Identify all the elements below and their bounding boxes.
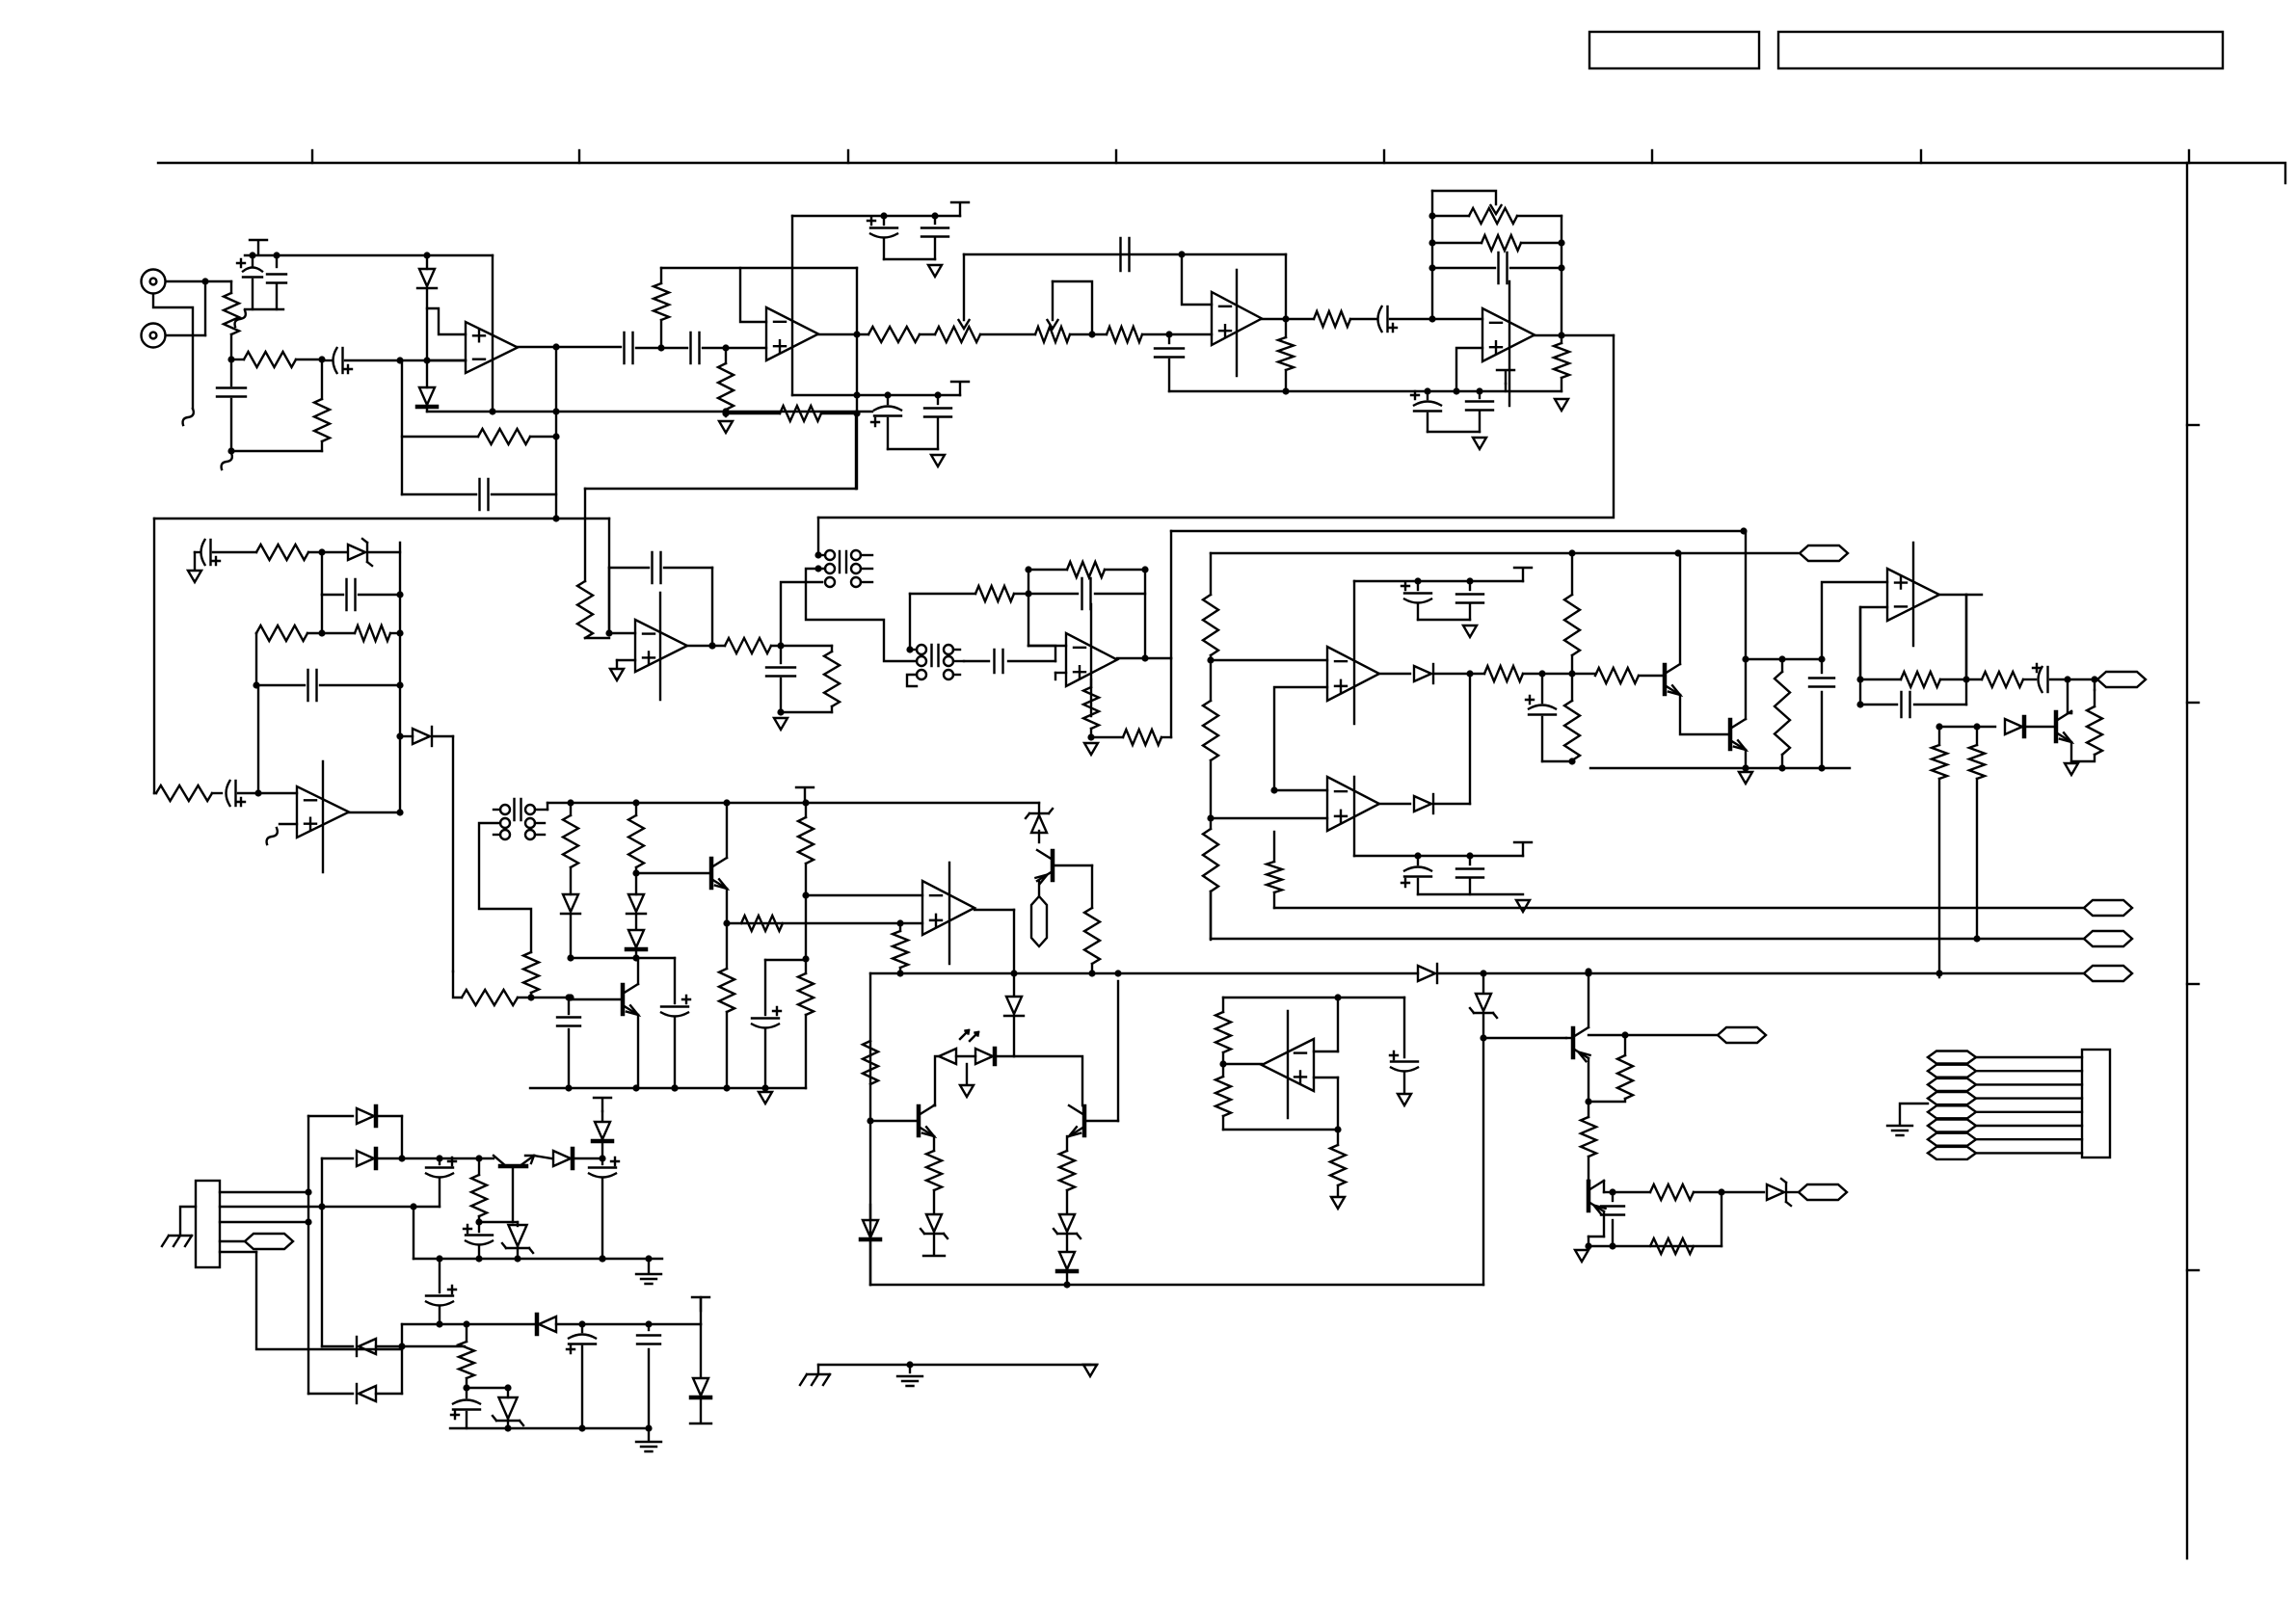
hexagon tag NET4 (2084, 931, 2132, 946)
resistor R56 (1337, 1130, 1339, 1145)
pol cap C39 (439, 1158, 441, 1164)
rail V+ stage1 (245, 254, 493, 256)
diode D9 (628, 894, 644, 912)
capacitor C2 polarized coupling (322, 359, 332, 361)
wire Q9 collector gnd (1603, 1211, 1605, 1237)
ground arrow G15 (1575, 1250, 1589, 1262)
op-amp U12 mirrored (1262, 1039, 1314, 1091)
wire S2 bottom route (907, 675, 917, 686)
capacitor C35 (568, 999, 570, 1014)
hexagon tag CN2 pin 3 (1928, 1078, 1976, 1091)
wire U2 output (818, 333, 868, 335)
pol cap C37 (764, 960, 766, 1015)
hexagon tag CN2 pin 2 (1928, 1065, 1976, 1078)
resistor chain x1256 a (1210, 553, 1212, 595)
wire feedback right vertical (856, 268, 858, 489)
wire U2 - loop top (661, 268, 766, 322)
CN2 ground lead (1900, 1104, 1928, 1124)
wire B2 left leg (1210, 891, 1212, 939)
resistor R44 (893, 931, 908, 968)
PSU minus gnd rail (450, 1427, 649, 1429)
capacitor C38 (1612, 1192, 1614, 1201)
pol cap C45 (1391, 1060, 1418, 1062)
PSU plus gnd rail (414, 1258, 662, 1260)
wire C25 to minus (1028, 646, 1055, 661)
resistor R23 U7 plus to gnd (1090, 679, 1092, 687)
top border ticks (311, 150, 313, 163)
resistor R54 (1215, 1012, 1231, 1052)
resistor R39 drop2 (635, 803, 637, 815)
bus wire B2 (1211, 938, 2084, 940)
hook stub U5 plus (280, 823, 297, 825)
wire D6 up to D5 node (1469, 674, 1471, 804)
diode D14 vertical (1013, 973, 1015, 995)
resistor R8 (868, 327, 920, 342)
op-amp U11 (1887, 569, 1939, 621)
wire plus rail (402, 1157, 494, 1159)
capacitor C13 on rail (1121, 238, 1130, 271)
hexagon tag NET1 (1800, 545, 1848, 561)
grounds tie wire (818, 1364, 1090, 1366)
op-amp U5 (297, 786, 349, 838)
resistor R49 (1581, 1117, 1596, 1157)
hexagon tag CN2 pin 8 (1928, 1147, 1976, 1159)
capacitor C15 polarized (1386, 306, 1388, 332)
wire J1 to node (166, 280, 231, 282)
trimmer VR2 (1035, 327, 1070, 342)
ground arrow G10 (1463, 625, 1477, 637)
op-amp U3 power line (1236, 270, 1238, 376)
wire U4 plus (1456, 348, 1482, 391)
capacitor C20 row2 (322, 594, 343, 596)
wire U8 out (974, 909, 1014, 911)
ground rail mid (1169, 390, 1562, 392)
transistor Q9 pnp (1587, 1182, 1591, 1211)
capacitor C10 (934, 216, 936, 224)
op-amp U4 power line (1508, 281, 1510, 406)
wire comparator feed line (1171, 530, 1744, 532)
op-amp U7 (1066, 633, 1117, 686)
wire cross link (571, 957, 636, 959)
transistor Q6 (917, 1106, 921, 1135)
wire Q8c chain (1588, 1102, 1589, 1117)
resistor R30 (1781, 659, 1783, 672)
diode D5 (1379, 673, 1410, 675)
resistor R53 (466, 1324, 467, 1342)
resistor R13 to gnd rail (1561, 335, 1562, 343)
zener D18 (1767, 1184, 1784, 1200)
hexagon tag NET8 vertical (1031, 896, 1047, 946)
supply tap T1 (250, 240, 267, 253)
resistor R36 (462, 990, 518, 1005)
op-amp U6 (635, 620, 687, 672)
wire rail corner down (1285, 254, 1287, 319)
diode D28 (700, 1324, 702, 1376)
diode D7 base (1977, 726, 1995, 728)
zener D12 (1482, 973, 1484, 993)
resistor R1 input shunt (230, 281, 232, 293)
capacitor C19 polarized (195, 551, 200, 553)
wire bottom row (1589, 1245, 1722, 1247)
wire Q6 emitter (933, 1136, 935, 1151)
resistor R20 (824, 652, 840, 706)
bridge inner rail (321, 1158, 323, 1346)
hexagon tag NET3 (2084, 900, 2132, 916)
wire Q8 emitter up (1588, 971, 1589, 1027)
capacitor C27 polarized (1417, 581, 1419, 590)
wire Q7 collector link (1014, 1056, 1082, 1105)
wire C37 top link (765, 959, 806, 961)
stub bar (923, 1255, 945, 1257)
op-amp U12 power line (1287, 1011, 1289, 1118)
pol cap C36 (636, 957, 675, 959)
zener D3 (348, 545, 365, 560)
resistor R47 (1059, 1151, 1075, 1190)
resistor R31 U11 feedback (1860, 678, 1901, 680)
diode D17 bar-top (1059, 1252, 1075, 1269)
switch S2 stubs (910, 649, 917, 651)
resistor R12 row2 (1432, 242, 1482, 244)
wire R42 (798, 973, 814, 1015)
wire U5 out (349, 811, 400, 813)
hexagon stub wire (220, 1240, 245, 1242)
resistor R52 (478, 1158, 480, 1175)
capacitor C11 polarized (887, 395, 889, 404)
capacitor C29 polarized (1417, 856, 1419, 865)
resistor R16 row3b (355, 625, 390, 641)
supply tap T5 (1514, 568, 1532, 581)
resistor R57 (1091, 865, 1093, 908)
gnd rail osc (781, 711, 832, 713)
open stub hook (183, 409, 194, 425)
diode D20 (322, 1157, 353, 1159)
mains connector CN1 (196, 1181, 220, 1267)
wire U2 V+ return (884, 258, 935, 260)
wire U11 out to row (1965, 595, 1967, 679)
ground arrow G5 (1555, 399, 1568, 411)
wire link 970 (805, 895, 807, 959)
hexagon tag NET6 (1786, 1191, 1799, 1193)
resistor R26 x1631 upper (1571, 553, 1573, 595)
wire Q2 emitter (1745, 750, 1747, 768)
trimmer VR3 row1 (1432, 215, 1469, 217)
zener D26 (507, 1388, 509, 1397)
resistor R7 feedback lower (726, 412, 780, 414)
sheet top border (158, 163, 2285, 183)
wire U6 out (687, 645, 725, 647)
ground arrow G1 (719, 421, 733, 433)
wire switch1 feed (817, 518, 819, 555)
transistor Q7 (1082, 1106, 1087, 1135)
diode D24 thick (601, 1111, 603, 1120)
wire hold cap return (1542, 760, 1572, 762)
resistor R25 (1470, 673, 1484, 675)
wire U12 minus (1314, 1051, 1338, 1052)
op-amp U4 (1482, 308, 1535, 361)
resistor R46 (926, 1151, 942, 1190)
wire U1 + input (427, 308, 466, 334)
wire U3 minus from rail (1182, 254, 1212, 305)
trimmer VR2 wiper loop (1053, 281, 1092, 334)
wire left vert x903 (869, 973, 871, 1285)
wire Q2 collector (1745, 531, 1747, 719)
wire J2 to J1 node (166, 334, 205, 336)
wire node row (1746, 658, 1822, 660)
capacitor C23 feedback (608, 568, 610, 633)
wire U12 top left leg (1222, 998, 1224, 1012)
earth ground E3 (909, 1365, 911, 1372)
capacitor C12 (937, 395, 939, 404)
resistor R27 x1631 lower (1571, 674, 1573, 701)
op-amp U8 (922, 881, 974, 935)
wire U4 output (1535, 334, 1614, 336)
resistor chain x1256 c (1203, 829, 1218, 891)
supply tap T7 (796, 787, 814, 801)
resistor R51 lower (1650, 1238, 1694, 1254)
ground arrow G3 (931, 455, 945, 466)
diode D1 (426, 255, 428, 269)
resistor R10 to rail (1285, 319, 1287, 337)
switch S3 stubs (535, 809, 547, 811)
transistor Q10 diagonal (500, 1164, 526, 1169)
switch S3 (500, 805, 510, 814)
hexagon tag NET9 (1718, 1027, 1766, 1043)
resistor R5 to minus (660, 320, 662, 348)
resistor R6 shunt (725, 348, 727, 363)
hexagon tag NET5 (2084, 966, 2132, 981)
op-amp U1 power line (492, 255, 494, 412)
wire U9 minus row (1211, 659, 1327, 661)
capacitor C25 S2 out (964, 660, 989, 662)
resistor R24 U7 bottom feedback (1091, 736, 1123, 738)
switch S1 stubs (818, 554, 825, 556)
wire feedback left leg (401, 360, 403, 494)
wire Q4 base (636, 872, 711, 874)
op-amp U2 power line (791, 216, 793, 395)
zener D25 (513, 1221, 518, 1223)
wire Q7 base right (1084, 1120, 1118, 1122)
main rail y1010 (870, 972, 1418, 974)
chassis ground C (817, 1365, 819, 1372)
U12 top rail (1223, 997, 1404, 998)
wire U1 - input (427, 359, 466, 361)
wire U6 minus node (605, 629, 612, 636)
right border ticks (2187, 424, 2199, 426)
supply tap T6 (1514, 842, 1532, 856)
supply tap T9 (692, 1297, 709, 1311)
resistor R40 (726, 923, 728, 969)
wire decouple return 2 (1428, 431, 1480, 433)
capacitor C17 decoupling (1479, 391, 1481, 398)
wire U11 fb legs (1859, 607, 1861, 705)
capacitor C34 polarized out (2046, 667, 2048, 692)
wire Q1 collector (1679, 553, 1681, 664)
wire Q8 base (1566, 1037, 1573, 1039)
ground arrow G18 (1398, 1094, 1411, 1105)
wire Q4 collector (726, 803, 728, 858)
earth ground E4 (1887, 1126, 1912, 1135)
diode D11 (1418, 966, 1435, 981)
wire Q3 collector (2070, 711, 2072, 713)
capacitor C7 coupling (691, 333, 700, 363)
supply tap T4 (1497, 370, 1514, 384)
ground arrow G13 (2065, 763, 2078, 775)
chassis ground CN1 (180, 1207, 196, 1235)
transistor Q3 (2054, 712, 2059, 741)
op-amp U10 power line (1353, 777, 1355, 856)
wire U12 plus (1314, 1077, 1338, 1078)
hexagon tag CN2 pin 5 (1928, 1105, 1976, 1118)
supply tap T8 (594, 1098, 611, 1111)
op-amp U11 power line (1912, 543, 1914, 646)
switch S3 left route (479, 823, 531, 952)
pol cap C40 (601, 1158, 603, 1164)
resistor R22 U7 feedback (1028, 569, 1067, 571)
wire Q7 emitter (1066, 1136, 1068, 1151)
wire link stage2 to osc (585, 488, 856, 490)
diode D6 (1379, 803, 1410, 805)
wire U8 minus (806, 894, 922, 896)
open stub hook 2 (222, 453, 232, 469)
resistor R48 (1624, 1035, 1626, 1055)
wire to U5 minus (258, 792, 297, 794)
wire to U3 plus (1169, 333, 1212, 335)
switch S2 (917, 645, 926, 654)
wire U3 output (1262, 318, 1314, 320)
U7 right rail (1144, 570, 1146, 658)
pol cap C43 (581, 1324, 583, 1332)
wire Q10 emitter out (534, 1156, 551, 1158)
wire osc2 drop (608, 519, 610, 633)
capacitor C3 polarized decoupling (252, 255, 254, 266)
op-amp U3 (1212, 292, 1262, 345)
resistor R55 (1222, 1064, 1224, 1077)
bridge minus leg (401, 1346, 403, 1394)
op-amp U2 (766, 307, 818, 360)
capacitor C1 to low node (230, 359, 232, 386)
wire gnd riser (413, 1207, 414, 1259)
wire Q1 emitter to Q2 base (1680, 695, 1730, 734)
rail V- stage1 (427, 411, 872, 412)
zener D29 diag (1038, 803, 1040, 814)
hexagon tag NET7 (245, 1234, 293, 1249)
ground arrow G16 (1083, 1365, 1097, 1376)
pol cap C42 (466, 1388, 467, 1397)
resistor R34 drop a (1976, 727, 1978, 745)
bridge plus leg (401, 1116, 403, 1158)
op-amp U10 (1327, 777, 1379, 831)
capacitor C30 (1469, 856, 1471, 865)
diode D19 (308, 1115, 353, 1117)
earth ground E1 (648, 1259, 650, 1272)
connector CN2 body (2082, 1050, 2110, 1157)
resistor R38 drop1 (570, 803, 572, 815)
pol cap C41 (478, 1222, 480, 1232)
wire top feedback to C8 (740, 267, 857, 269)
wire Q11 collector to tag (1038, 881, 1040, 896)
capacitor C26 U7 feedback (1028, 593, 1078, 595)
transistor Q8 pnp (1571, 1028, 1576, 1057)
resistor chain x1256 b (1210, 660, 1212, 701)
wire U8 plus row (727, 922, 922, 924)
wire U2 V- return (888, 448, 938, 450)
wire R35 top (1939, 726, 1977, 728)
resistor R35 drop b (1938, 727, 1940, 745)
trimmer VR1 wiper (963, 254, 965, 320)
transistor Q1 (1663, 665, 1668, 694)
wire U11 plus feed (1822, 582, 1887, 659)
ground arrow G11 (1516, 900, 1530, 912)
wire U8 out leg (1013, 910, 1015, 973)
rail U2 V- (792, 394, 960, 396)
ground arrow G12 (1739, 772, 1752, 784)
wire rail to right (1483, 972, 2084, 974)
capacitor C44 (648, 1324, 650, 1330)
op-amp U9 (1327, 647, 1379, 701)
wire U7 plus (1055, 672, 1066, 674)
wire plus leg down (899, 923, 901, 931)
op-amp U1 (466, 322, 518, 373)
wire Q8 emitter tag row (1589, 1034, 1718, 1036)
resistor R43 in plus row (741, 916, 783, 931)
wire base to R52 (479, 1221, 513, 1223)
wire zener node to base (1483, 1037, 1566, 1039)
resistor R3 series input (231, 359, 244, 360)
wire Q10 base leg (512, 1166, 514, 1222)
title block box 2 (1778, 32, 2223, 68)
rail osc top (964, 253, 1286, 255)
wire U6 node up to switch (781, 582, 822, 646)
resistor R14 row1 (256, 545, 308, 560)
capacitor C18 row3 (1432, 267, 1495, 269)
wire C23 right leg (711, 568, 713, 646)
zener D16 (1059, 1214, 1075, 1232)
resistor R18 input (577, 581, 593, 638)
wire diode to VCA drop (452, 736, 454, 971)
wire U10 supply return (1418, 893, 1523, 895)
wire bias row (518, 997, 571, 998)
capacitor C43b rails link (439, 1259, 441, 1292)
input jack J2 (142, 324, 166, 348)
CN1 pin wires (220, 1191, 308, 1193)
capacitor C6 coupling (625, 333, 633, 363)
wire Q7 base drop (1117, 981, 1119, 1121)
supply tap T3 (951, 382, 969, 395)
hexagon tag CN2 pin 7 (1928, 1133, 1976, 1146)
wire low return (231, 450, 322, 452)
wire Q8 collector (1588, 1058, 1589, 1102)
capacitor C22 polarized (212, 792, 222, 794)
bus wire B1 (1274, 907, 2084, 909)
wire left rail to R17 (154, 792, 156, 794)
capacitor C31 polarized hold (1541, 674, 1543, 703)
wire x334 down (321, 595, 323, 633)
capacitor C32 (1821, 659, 1823, 673)
capacitor C14 shunt (1168, 334, 1170, 343)
wire S2 left feeds (909, 594, 911, 650)
diode D13 bar-top (863, 1220, 878, 1237)
wire osc drop (584, 489, 586, 581)
resistor R15 row3a (255, 632, 257, 634)
diode D4 detect (400, 735, 413, 737)
resistor R28 after (1572, 673, 1595, 675)
ground arrow G9 (1084, 743, 1098, 755)
wire Q11 base row (1053, 865, 1092, 866)
supply tap T2 (951, 202, 969, 216)
wire decoupling return (245, 308, 283, 310)
osc block left rail (153, 519, 155, 793)
trimmer VR1 (935, 327, 980, 342)
